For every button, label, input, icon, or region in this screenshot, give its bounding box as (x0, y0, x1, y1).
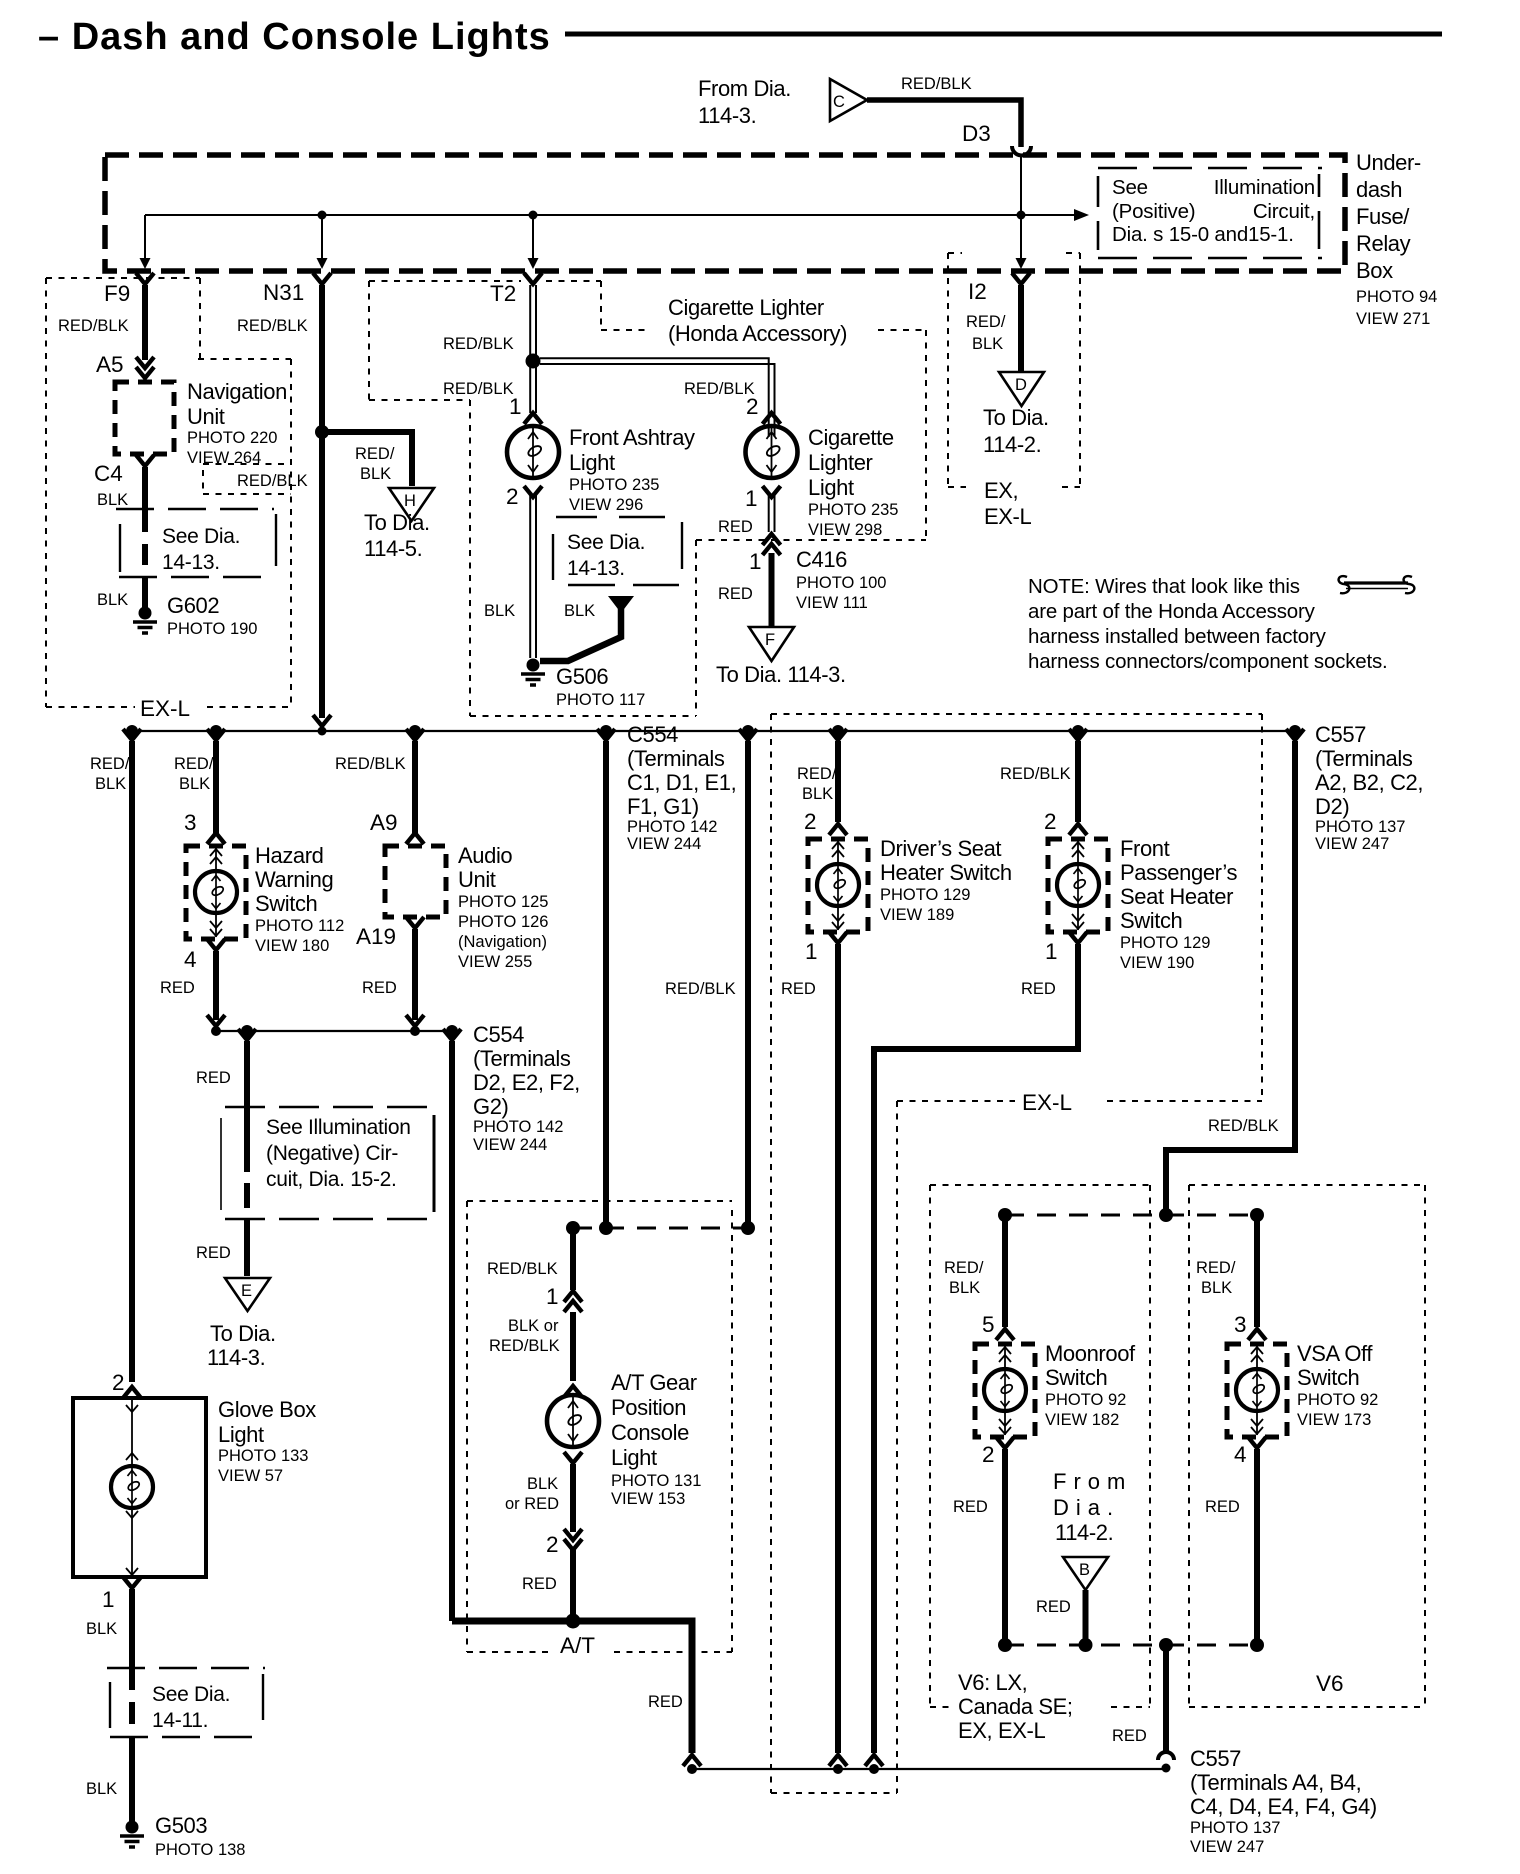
node on feed line at D3/I2 (1017, 211, 1026, 220)
moonroof switch box (975, 1344, 1035, 1437)
svg-text:RED: RED (522, 1575, 557, 1593)
svg-text:EX-L: EX-L (984, 504, 1031, 529)
lamp glove box light (111, 1466, 153, 1508)
svg-text:PHOTO 137: PHOTO 137 (1190, 1819, 1280, 1837)
svg-text:RED: RED (718, 518, 753, 536)
A/T bottom bus (452, 1621, 692, 1753)
svg-text:Cigarette: Cigarette (808, 425, 894, 450)
svg-text:Dia.: Dia. (1053, 1495, 1120, 1520)
svg-text:BLK: BLK (95, 775, 126, 793)
svg-text:V6: V6 (1316, 1671, 1344, 1696)
wire RED audio to bus2 (412, 929, 418, 1020)
node on feed line at N31 (318, 211, 327, 220)
svg-text:See Dia.: See Dia. (567, 531, 645, 554)
svg-text:G602: G602 (167, 593, 219, 618)
svg-text:C557: C557 (1190, 1746, 1241, 1771)
connector end N31 at bus (313, 715, 331, 726)
svg-text:VIEW 153: VIEW 153 (611, 1490, 685, 1508)
svg-text:Canada SE;: Canada SE; (958, 1694, 1073, 1719)
svg-text:E: E (241, 1282, 252, 1300)
svg-text:RED/BLK: RED/BLK (487, 1260, 558, 1278)
wire RED/BLK I2 to D (1018, 285, 1024, 371)
svg-text:Relay: Relay (1356, 231, 1411, 256)
svg-text:RED/: RED/ (174, 755, 214, 773)
svg-text:Unit: Unit (187, 404, 225, 429)
svg-text:F1, G1): F1, G1) (627, 794, 699, 819)
svg-text:RED/BLK: RED/BLK (489, 1337, 560, 1355)
svg-text:A9: A9 (370, 810, 398, 835)
wire feeder drop T2 (532, 215, 534, 259)
svg-text:C554: C554 (473, 1022, 524, 1047)
bus2 C554 return (216, 1030, 452, 1032)
connector I2 (1012, 273, 1030, 284)
node on feed line at T2 (529, 211, 538, 220)
svg-text:See Dia.: See Dia. (152, 1683, 230, 1706)
node moonroof feed (998, 1208, 1012, 1222)
node C557 feed (1159, 1208, 1173, 1222)
svg-text:A/T: A/T (560, 1633, 595, 1658)
svg-text:1: 1 (805, 939, 818, 964)
svg-text:A5: A5 (96, 352, 124, 377)
svg-text:Switch: Switch (1297, 1365, 1359, 1390)
wire RED bus2 to A/T bus (449, 1041, 455, 1621)
svg-text:RED/BLK: RED/BLK (1208, 1117, 1279, 1135)
svg-text:PHOTO 190: PHOTO 190 (167, 620, 257, 638)
svg-text:Passenger’s: Passenger’s (1120, 860, 1237, 885)
svg-text:PHOTO 129: PHOTO 129 (1120, 934, 1210, 952)
wire RED to C416 (accessory double) (768, 495, 770, 532)
connector E drop (238, 1029, 256, 1040)
node AT link E1b (599, 1221, 613, 1235)
lamp front ashtray light (507, 426, 559, 478)
dashed group box VSA V6 (1189, 1185, 1425, 1707)
svg-text:Illumination: Illumination (1214, 176, 1315, 199)
svg-text:RED/BLK: RED/BLK (335, 755, 406, 773)
node bus N31 (318, 727, 327, 736)
svg-text:114-2.: 114-2. (1055, 1520, 1113, 1545)
svg-text:5: 5 (982, 1312, 995, 1337)
wire BLK ashtray to ground (accessory double) (529, 495, 531, 658)
svg-text:VIEW 298: VIEW 298 (808, 521, 882, 539)
wire RED to AT bus (570, 1548, 576, 1621)
wire RED moonroof down (1002, 1449, 1008, 1645)
dashed group box cigarette lighter assembly (369, 281, 926, 716)
svg-text:(Terminals A4, B4,: (Terminals A4, B4, (1190, 1770, 1361, 1795)
svg-text:Under-: Under- (1356, 150, 1421, 175)
svg-text:BLK: BLK (1201, 1279, 1232, 1297)
off-page connector E (triangle) (225, 1278, 270, 1311)
wire RED/BLK to moonroof switch (1002, 1218, 1008, 1327)
off-page connector H (triangle) (389, 488, 434, 521)
svg-text:2: 2 (506, 484, 519, 509)
svg-text:D: D (1015, 376, 1027, 394)
svg-text:VIEW 190: VIEW 190 (1120, 954, 1194, 972)
wire RED/BLK to AT lamp (570, 1231, 576, 1290)
node bus C554 G1 (742, 725, 754, 737)
node bus C557 (1289, 725, 1301, 737)
wire feeder drop I2 from D3 (1020, 155, 1022, 259)
svg-text:VIEW 111: VIEW 111 (796, 594, 868, 612)
svg-text:PHOTO 94: PHOTO 94 (1356, 288, 1437, 306)
node T2 split (526, 354, 541, 369)
lamp cigarette lighter light (746, 426, 798, 478)
svg-text:VIEW 189: VIEW 189 (880, 906, 954, 924)
svg-text:Fuse/: Fuse/ (1356, 204, 1410, 229)
wire RED/BLK to driver heater switch (835, 741, 841, 822)
svg-text:VIEW 296: VIEW 296 (569, 496, 643, 514)
svg-text:See Dia.: See Dia. (162, 525, 240, 548)
under-dash fuse/relay box (thick dashed) (105, 155, 1345, 271)
svg-text:From Dia.: From Dia. (698, 76, 791, 101)
svg-text:VIEW 247: VIEW 247 (1315, 835, 1389, 853)
svg-text:Glove Box: Glove Box (218, 1397, 316, 1422)
connector driver heater feed (829, 729, 847, 740)
wire RED/BLK to VSA off switch (1254, 1218, 1260, 1327)
honda accessory wire symbol (1339, 576, 1415, 593)
svg-text:A/T Gear: A/T Gear (611, 1370, 697, 1395)
svg-text:114-5.: 114-5. (364, 536, 422, 561)
connector audio feed (406, 729, 424, 740)
wire BLK glove box to ground (129, 1589, 135, 1668)
see dia. 14-13 reference box (ashtray) (553, 517, 682, 585)
lamp A/T gear position console light (564, 1386, 582, 1397)
svg-text:N31: N31 (263, 280, 304, 305)
svg-text:RED: RED (1021, 980, 1056, 998)
svg-text:C4: C4 (94, 461, 123, 486)
wire branch to H (322, 432, 412, 486)
svg-text:A19: A19 (356, 924, 396, 949)
svg-text:1: 1 (1045, 939, 1058, 964)
svg-text:RED: RED (362, 979, 397, 997)
svg-text:BLK: BLK (564, 602, 595, 620)
svg-text:114-2.: 114-2. (983, 432, 1041, 457)
driver's seat heater switch box (808, 839, 868, 932)
node bus F9 branch (126, 725, 138, 737)
svg-text:RED: RED (196, 1069, 231, 1087)
connector AT to C557 line (683, 1755, 701, 1766)
svg-text:harness connectors/component s: harness connectors/component sockets. (1028, 650, 1388, 673)
svg-text:V6: LX,: V6: LX, (958, 1670, 1027, 1695)
svg-text:BLK: BLK (86, 1780, 117, 1798)
svg-text:RED/BLK: RED/BLK (684, 380, 755, 398)
wire RED C416 to F (769, 553, 775, 626)
svg-text:2: 2 (804, 809, 817, 834)
svg-text:I2: I2 (968, 279, 987, 304)
lamp front passenger's seat heater switch (1057, 864, 1099, 906)
svg-text:(Navigation): (Navigation) (458, 933, 547, 951)
ground G506 (521, 659, 545, 686)
connector C557 feed (1286, 729, 1304, 740)
svg-text:Hazard: Hazard (255, 843, 324, 868)
wire C554 E1 drop to A/T (597, 729, 615, 740)
wire BLK or RED/BLK (570, 1312, 576, 1381)
svg-text:PHOTO 142: PHOTO 142 (473, 1118, 563, 1136)
svg-text:RED/: RED/ (797, 765, 837, 783)
svg-text:1: 1 (509, 394, 522, 419)
wire RED B to link (1083, 1590, 1089, 1645)
svg-text:T2: T2 (490, 281, 516, 306)
svg-text:RED/: RED/ (1196, 1259, 1236, 1277)
svg-text:VIEW 244: VIEW 244 (627, 835, 701, 853)
svg-text:4: 4 (1234, 1442, 1247, 1467)
svg-text:BLK: BLK (484, 602, 515, 620)
svg-text:D3: D3 (962, 121, 991, 146)
svg-text:PHOTO 112: PHOTO 112 (255, 917, 344, 935)
node bus2 audio (410, 1026, 420, 1036)
svg-text:VIEW 180: VIEW 180 (255, 937, 329, 955)
wire RED/BLK N31 to bus (319, 285, 325, 718)
connector N31 (313, 273, 331, 284)
wire RED/BLK C557 down (1166, 741, 1295, 1212)
svg-text:Warning: Warning (255, 867, 333, 892)
svg-text:VSA Off: VSA Off (1297, 1341, 1373, 1366)
svg-text:PHOTO 125: PHOTO 125 (458, 893, 548, 911)
svg-text:RED/BLK: RED/BLK (665, 980, 736, 998)
svg-text:PHOTO 131: PHOTO 131 (611, 1472, 701, 1490)
node bus audio branch (409, 725, 421, 737)
off-page connector D (triangle) (999, 372, 1044, 406)
svg-text:PHOTO 92: PHOTO 92 (1045, 1391, 1126, 1409)
svg-text:Driver’s Seat: Driver’s Seat (880, 836, 1001, 861)
title rule (565, 32, 1442, 37)
hazard warning switch box (186, 846, 246, 939)
svg-text:Heater Switch: Heater Switch (880, 860, 1012, 885)
node VSA feed (1250, 1208, 1264, 1222)
svg-text:Audio: Audio (458, 843, 512, 868)
svg-text:Switch: Switch (1045, 1365, 1107, 1390)
svg-text:Cigarette Lighter: Cigarette Lighter (668, 295, 824, 320)
svg-text:G2): G2) (473, 1094, 508, 1119)
svg-text:1: 1 (546, 1284, 559, 1309)
wire RED to E (244, 1041, 250, 1147)
off-page connector C (triangle) (830, 79, 867, 121)
wire accessory double to cigarette lamp (540, 358, 769, 437)
svg-text:To Dia.: To Dia. (364, 510, 430, 535)
svg-text:PHOTO 92: PHOTO 92 (1297, 1391, 1378, 1409)
dashed group box EX-L (navigation) (46, 278, 291, 707)
node bus2 hazard (211, 1026, 221, 1036)
main illumination bus C554/C557 (132, 730, 1295, 732)
svg-text:A2, B2, C2,: A2, B2, C2, (1315, 770, 1423, 795)
svg-text:(Terminals: (Terminals (627, 746, 725, 771)
glove box light internals (126, 1400, 138, 1575)
svg-text:RED: RED (196, 1244, 231, 1262)
svg-text:RED/BLK: RED/BLK (1000, 765, 1071, 783)
wire feeder drop N31 (321, 215, 323, 259)
node AT link G1 (741, 1221, 755, 1235)
wire: illumination feed line inside fuse box (145, 214, 1077, 216)
svg-text:BLK: BLK (97, 491, 128, 509)
svg-text:NOTE: Wires that look like thi: NOTE: Wires that look like this (1028, 575, 1300, 598)
wire RED/BLK to hazard switch (213, 741, 219, 834)
wire RED VSA down (1254, 1449, 1260, 1645)
svg-text:Navigation: Navigation (187, 379, 287, 404)
node B return (1079, 1638, 1093, 1652)
node moonroof return (998, 1638, 1012, 1652)
svg-text:RED/BLK: RED/BLK (58, 317, 129, 335)
svg-text:14-13.: 14-13. (162, 551, 220, 574)
wire C554 G1 drop to A/T (739, 729, 757, 740)
svg-text:BLK: BLK (527, 1475, 558, 1493)
svg-text:To Dia.: To Dia. (210, 1321, 276, 1346)
connector hazard feed (207, 729, 225, 740)
svg-text:(Terminals: (Terminals (473, 1046, 571, 1071)
svg-text:RED: RED (781, 980, 816, 998)
svg-text:RED/BLK: RED/BLK (443, 380, 514, 398)
svg-text:Light: Light (218, 1422, 264, 1447)
front passenger's seat heater switch box (1048, 839, 1108, 932)
svg-text:2: 2 (546, 1532, 559, 1557)
svg-text:Lighter: Lighter (808, 450, 873, 475)
svg-text:PHOTO 117: PHOTO 117 (556, 691, 645, 709)
ground G602 (133, 607, 157, 634)
svg-text:(Honda Accessory): (Honda Accessory) (668, 321, 847, 346)
see dia. 14-13 reference box (116, 509, 276, 577)
ground G503 (120, 1821, 144, 1848)
svg-text:See: See (1112, 176, 1148, 199)
svg-text:From: From (1053, 1469, 1132, 1494)
svg-text:C1, D1, E1,: C1, D1, E1, (627, 770, 736, 795)
svg-text:B: B (1079, 1561, 1090, 1579)
wire BLK or RED below lamp (564, 1452, 582, 1463)
svg-text:PHOTO 138: PHOTO 138 (155, 1841, 245, 1859)
wire RED/BLK to passenger heater switch (1075, 741, 1081, 822)
svg-text:BLK: BLK (802, 785, 833, 803)
connector T2 (524, 273, 542, 284)
off-page connector B (triangle) (1063, 1557, 1108, 1590)
connector passenger heater bottom (865, 1755, 883, 1766)
svg-text:D2): D2) (1315, 794, 1349, 819)
audio unit box (385, 846, 446, 917)
svg-text:PHOTO 129: PHOTO 129 (880, 886, 970, 904)
arrow into see illumination box (1074, 209, 1089, 221)
svg-text:To Dia.: To Dia. (983, 405, 1049, 430)
svg-text:dash: dash (1356, 177, 1402, 202)
svg-text:G506: G506 (556, 664, 608, 689)
svg-text:D2, E2, F2,: D2, E2, F2, (473, 1070, 580, 1095)
svg-text:4: 4 (184, 947, 197, 972)
lamp hazard switch (195, 871, 237, 913)
svg-text:Front: Front (1120, 836, 1170, 861)
svg-text:C554: C554 (627, 722, 678, 747)
svg-text:RED/: RED/ (944, 1259, 984, 1277)
svg-text:C557: C557 (1315, 722, 1366, 747)
svg-text:PHOTO 100: PHOTO 100 (796, 574, 886, 592)
svg-text:Switch: Switch (255, 891, 317, 916)
wire RED/BLK to glove box light (129, 741, 135, 1382)
svg-text:RED: RED (648, 1693, 683, 1711)
svg-text:114-3.: 114-3. (698, 103, 756, 128)
svg-text:1: 1 (102, 1587, 115, 1612)
connector C557 bottom (socket arc) (1158, 1752, 1174, 1760)
svg-text:EX-L: EX-L (140, 696, 190, 721)
svg-text:VIEW 244: VIEW 244 (473, 1136, 547, 1154)
svg-text:14-11.: 14-11. (152, 1709, 208, 1732)
svg-text:EX,: EX, (984, 478, 1018, 503)
connector AT drop (443, 1029, 461, 1040)
svg-text:RED: RED (953, 1498, 988, 1516)
bottom return line (692, 1768, 1166, 1770)
see illumination (negative) reference box (221, 1107, 434, 1219)
svg-text:RED/: RED/ (355, 445, 395, 463)
svg-text:(Positive): (Positive) (1112, 200, 1195, 223)
svg-text:2: 2 (746, 394, 759, 419)
wire RED passenger heater down (874, 944, 1078, 1753)
svg-text:Position: Position (611, 1395, 686, 1420)
svg-text:VIEW 57: VIEW 57 (218, 1467, 283, 1485)
svg-text:(Negative) Cir-: (Negative) Cir- (266, 1142, 398, 1165)
svg-text:PHOTO 235: PHOTO 235 (808, 501, 898, 519)
svg-text:cuit, Dia. 15-2.: cuit, Dia. 15-2. (266, 1168, 397, 1191)
svg-text:RED: RED (1205, 1498, 1240, 1516)
svg-text:harness installed between fact: harness installed between factory (1028, 625, 1327, 648)
connector C416 (763, 534, 781, 555)
wire RED/BLK F9 to A5 (142, 285, 148, 360)
connector D3 (socket arc) (1012, 146, 1031, 156)
connector glove box feed (123, 729, 141, 740)
svg-text:RED: RED (160, 979, 195, 997)
svg-text:Console: Console (611, 1420, 689, 1445)
svg-text:See Illumination: See Illumination (266, 1116, 411, 1139)
svg-text:RED/: RED/ (966, 313, 1006, 331)
svg-text:2: 2 (112, 1370, 125, 1395)
svg-text:(Terminals: (Terminals (1315, 746, 1413, 771)
dashed group box seat heaters EX-L (771, 714, 1262, 1793)
svg-text:VIEW 247: VIEW 247 (1190, 1838, 1264, 1856)
svg-text:or RED: or RED (505, 1495, 559, 1513)
svg-text:RED: RED (1036, 1598, 1071, 1616)
svg-text:RED: RED (1112, 1727, 1147, 1745)
svg-text:Switch: Switch (1120, 908, 1182, 933)
node bus2 AT drop (446, 1025, 458, 1037)
svg-text:Front Ashtray: Front Ashtray (569, 425, 695, 450)
svg-text:1: 1 (745, 486, 758, 511)
navigation unit box (115, 382, 174, 454)
svg-text:2: 2 (1044, 809, 1057, 834)
svg-text:Unit: Unit (458, 867, 496, 892)
svg-text:EX, EX-L: EX, EX-L (958, 1718, 1045, 1743)
svg-text:are part of the Honda Accessor: are part of the Honda Accessory (1028, 600, 1316, 623)
svg-text:RED: RED (718, 585, 753, 603)
svg-text:3: 3 (184, 810, 197, 835)
node N31 branch (315, 425, 329, 439)
svg-text:BLK: BLK (97, 591, 128, 609)
svg-text:PHOTO 137: PHOTO 137 (1315, 818, 1405, 836)
svg-text:BLK: BLK (949, 1279, 980, 1297)
glove box light box (73, 1398, 206, 1577)
svg-text:Seat Heater: Seat Heater (1120, 884, 1233, 909)
node AT link E1 (566, 1221, 580, 1235)
svg-text:Light: Light (569, 450, 615, 475)
svg-text:To Dia. 114-3.: To Dia. 114-3. (716, 662, 846, 687)
off-page connector F (triangle) (749, 627, 794, 661)
node bus hazard branch (210, 725, 222, 737)
wire RED/BLK to audio unit (412, 741, 418, 834)
wire RED hazard to bus2 (213, 951, 219, 1020)
svg-text:PHOTO 133: PHOTO 133 (218, 1447, 308, 1465)
svg-text:PHOTO 126: PHOTO 126 (458, 913, 548, 931)
dashed group box A/T (467, 1201, 732, 1652)
svg-text:F9: F9 (104, 281, 130, 306)
svg-text:RED/BLK: RED/BLK (443, 335, 514, 353)
node bus driver heater (832, 725, 844, 737)
svg-text:G503: G503 (155, 1813, 207, 1838)
svg-text:BLK: BLK (972, 335, 1003, 353)
svg-text:Light: Light (611, 1445, 657, 1470)
svg-text:114-3.: 114-3. (207, 1345, 265, 1370)
svg-text:VIEW 255: VIEW 255 (458, 953, 532, 971)
svg-text:1: 1 (749, 549, 762, 574)
